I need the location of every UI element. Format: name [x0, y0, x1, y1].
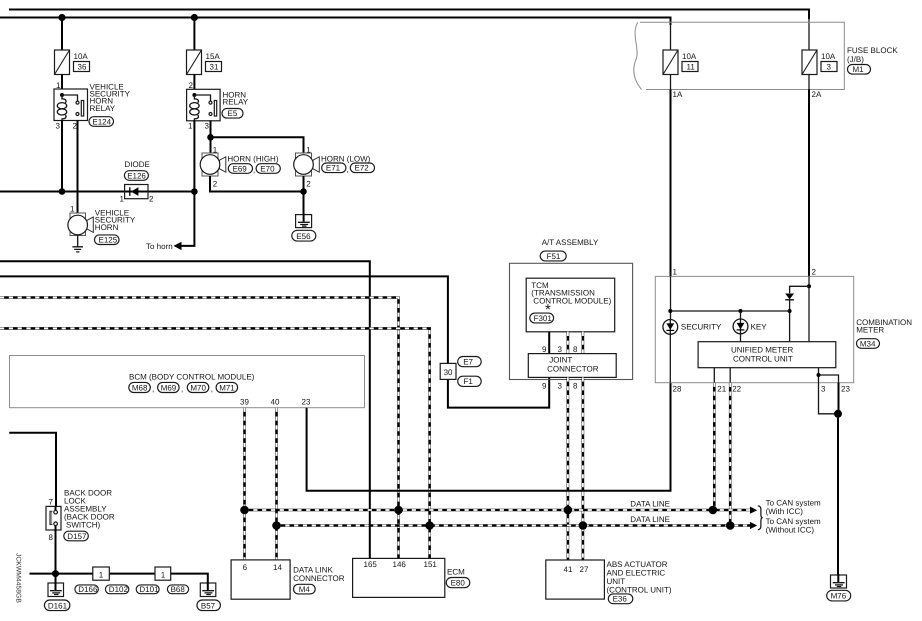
- wire: TCM dashed to joint connector pin 3: [567, 332, 570, 354]
- wire: horn feed with diode E126: [0, 191, 194, 193]
- svg-text:151: 151: [424, 560, 438, 569]
- svg-text:RELAY: RELAY: [223, 98, 249, 107]
- svg-text:E5: E5: [228, 109, 238, 118]
- svg-text:3: 3: [558, 345, 563, 354]
- svg-text:D166: D166: [78, 585, 98, 594]
- node: junction on bus 2 above fuse 10A/36: [58, 14, 65, 21]
- node: junction diode wire / relay E124 pin 3: [59, 188, 66, 195]
- wire: key LED to unified meter control unit: [740, 334, 742, 342]
- connector ovals D166 D102 D101 B68: [75, 585, 189, 594]
- svg-text:E124: E124: [92, 117, 111, 126]
- wire: fuse 31 to relay E5 pin 2: [193, 75, 195, 90]
- combination meter box M34: [655, 268, 912, 383]
- wire: stem to ground D161: [55, 574, 57, 583]
- svg-text:CONNECTOR: CONNECTOR: [293, 574, 345, 583]
- wire: LED supply rail: [670, 310, 789, 312]
- wire: horn high pin 2 to horn low pin 2, to ground E56: [210, 176, 304, 215]
- svg-text:8: 8: [573, 381, 578, 390]
- svg-text:SECURITY: SECURITY: [681, 323, 722, 332]
- wire: line through connector 30 to joint connector pin 9: [0, 276, 549, 407]
- svg-text:E80: E80: [451, 579, 466, 588]
- wire: fuse 2A to combination meter pin 2: [808, 75, 810, 90]
- svg-text:2: 2: [306, 180, 311, 189]
- svg-text:E56: E56: [296, 232, 311, 241]
- joint connector: [528, 345, 616, 391]
- svg-text:2A: 2A: [812, 90, 822, 99]
- svg-text:E126: E126: [127, 171, 146, 180]
- svg-text:(With ICC): (With ICC): [766, 507, 804, 516]
- unified meter control unit: [698, 342, 836, 368]
- svg-text:JOINT: JOINT: [549, 356, 572, 365]
- wire: UMCU to meter pins 3 and 23: [819, 368, 839, 383]
- svg-text:KEY: KEY: [751, 323, 768, 332]
- TCM (transmission control module) F301: [526, 278, 615, 332]
- diode (meter internal): [785, 294, 794, 300]
- svg-text:M34: M34: [860, 339, 876, 348]
- fuse 10A 3 (2A): [802, 50, 837, 99]
- node: data line 2 junctions: [272, 521, 281, 530]
- svg-text:39: 39: [240, 398, 249, 407]
- svg-text:RELAY: RELAY: [90, 104, 116, 113]
- wire: joint connector pin 8 dashed down to ABS pin 27: [582, 377, 585, 560]
- svg-text:23: 23: [841, 385, 850, 394]
- svg-text:,: ,: [253, 166, 255, 175]
- wire: branch to internal diode: [790, 286, 809, 293]
- wire: BCM pin 39 dashed down to data link connector pin 6: [243, 408, 246, 560]
- wire: bus 2 to fuse 10A/36: [61, 18, 63, 51]
- svg-text:21: 21: [717, 385, 726, 394]
- wire: UMCU to meter pin 21: [713, 368, 715, 383]
- svg-text:8: 8: [49, 533, 54, 542]
- node: junction on pin 2 wire: [807, 284, 811, 288]
- svg-text:1: 1: [99, 571, 104, 580]
- node: junction KEY led / rail: [739, 309, 743, 313]
- wire: bus 2 to fuse 15A/31: [193, 18, 195, 51]
- svg-text:11: 11: [687, 63, 696, 72]
- wire: CAN branch line to ECM pin 165: [0, 261, 370, 558]
- svg-text:B57: B57: [201, 601, 216, 610]
- horn LOW E71/E72: [294, 146, 375, 189]
- LED key indicator: [733, 319, 767, 334]
- node: junction diode / LED rail: [788, 309, 792, 313]
- svg-text:HORN (HIGH): HORN (HIGH): [227, 154, 278, 163]
- svg-text:,: ,: [152, 385, 154, 394]
- svg-text:METER: METER: [856, 326, 884, 335]
- wire: feed to horn low pin 1: [211, 137, 304, 153]
- inline connector 1 (D166/D102): [93, 567, 110, 580]
- svg-text:1: 1: [161, 571, 166, 580]
- svg-text:3: 3: [827, 63, 832, 72]
- wire: relay E5 pin 3 down: [210, 120, 212, 153]
- wire: relay E124 pin 3 down to diode wire: [61, 121, 63, 192]
- wire: joint connector pin 3 dashed down to ABS pin 41: [567, 377, 570, 560]
- ABS actuator and electric unit E36: [546, 560, 672, 604]
- node: junction diode wire / to-horn wire: [191, 188, 198, 195]
- svg-text:41: 41: [564, 565, 573, 574]
- fuse 15A 31: [187, 50, 222, 75]
- svg-text:F1: F1: [464, 377, 474, 386]
- wire: meter pin 22 dashed to data line 2: [729, 383, 732, 526]
- wire: rail to KEY led: [740, 311, 742, 319]
- node: junction horn grounds: [300, 188, 307, 195]
- svg-text:D101: D101: [139, 585, 159, 594]
- wire: meter pins 3/23 join to ground M76: [819, 383, 839, 414]
- node: junction pins 3/23 below meter: [834, 410, 842, 418]
- svg-text:1: 1: [673, 268, 678, 277]
- svg-text:10A: 10A: [74, 52, 89, 61]
- svg-text:D157: D157: [67, 532, 87, 541]
- data line 1 dashed to CAN with ICC: [245, 509, 751, 512]
- connector 30 between harness E7 / F1: [440, 357, 481, 387]
- svg-text:FUSE BLOCK: FUSE BLOCK: [847, 46, 898, 55]
- wire: fuse 1A to combination meter pin 1: [670, 75, 672, 90]
- svg-text:E36: E36: [613, 595, 628, 604]
- svg-text:27: 27: [580, 565, 589, 574]
- svg-text:23: 23: [302, 398, 311, 407]
- brace grouping CAN outputs: [758, 506, 763, 530]
- svg-text:M69: M69: [161, 383, 177, 392]
- BCM (body control module) box: [10, 356, 365, 408]
- wire: power bus line 2 (to fuse 1A): [0, 18, 671, 26]
- ground E56: [292, 213, 316, 241]
- svg-text:HORN (LOW): HORN (LOW): [321, 154, 371, 163]
- node: junction switch / ground rail: [52, 570, 59, 577]
- node: junction horn high / horn low feed: [207, 134, 214, 141]
- wire: meter pin 2 internal down to unified meter control unit: [808, 276, 810, 341]
- svg-text:BCM (BODY CONTROL MODULE): BCM (BODY CONTROL MODULE): [129, 372, 255, 381]
- svg-text:(Without ICC): (Without ICC): [766, 526, 815, 535]
- wire: relay E5 pin 1 down, to horn arrow: [182, 120, 195, 245]
- svg-text:(CONTROL UNIT): (CONTROL UNIT): [607, 585, 672, 594]
- svg-text:10A: 10A: [821, 52, 836, 61]
- fuse 10A 36: [55, 50, 90, 75]
- svg-text:M4: M4: [299, 585, 311, 594]
- wire: CAN dashed line to ECM pin 151: [0, 328, 430, 558]
- fuse 10A 11 (1A): [663, 50, 698, 99]
- wire: bottom ground rail: [30, 574, 208, 583]
- data line 2 dashed to CAN without ICC: [277, 524, 751, 527]
- to horn arrow: [174, 242, 182, 250]
- wire: TCM pin to joint connector pin 9: [548, 332, 550, 354]
- svg-text:A/T ASSEMBLY: A/T ASSEMBLY: [542, 238, 599, 247]
- svg-text:2: 2: [149, 195, 154, 204]
- svg-text:E7: E7: [463, 358, 473, 367]
- svg-text:10A: 10A: [682, 52, 697, 61]
- svg-text:To horn: To horn: [146, 242, 173, 251]
- node: junction on bus 2 above fuse 15A/31: [191, 14, 198, 21]
- arrow: to CAN system (without ICC): [750, 522, 757, 529]
- wire: BCM area to back door switch: [9, 433, 56, 507]
- relay E124 (vehicle security horn relay): [54, 81, 131, 131]
- svg-text:2: 2: [812, 268, 817, 277]
- ground (earth) below E125: [72, 236, 83, 252]
- svg-text:31: 31: [210, 63, 219, 72]
- ground M76: [827, 574, 851, 601]
- svg-text:E69: E69: [233, 164, 248, 173]
- svg-text:D161: D161: [48, 601, 68, 610]
- svg-text:15A: 15A: [206, 52, 221, 61]
- A/T assembly F51: [510, 238, 633, 380]
- svg-text:ECM: ECM: [447, 568, 465, 577]
- wire: BCM pin 23 to combination meter pin 28: [307, 383, 671, 491]
- svg-text:B68: B68: [171, 585, 186, 594]
- svg-text:30: 30: [444, 368, 453, 377]
- svg-text:1: 1: [120, 195, 125, 204]
- wire: CAN dashed line to ECM pin 146: [0, 298, 399, 559]
- svg-text:28: 28: [673, 385, 682, 394]
- svg-text:1A: 1A: [673, 90, 683, 99]
- svg-text:M68: M68: [132, 383, 148, 392]
- svg-text:14: 14: [273, 563, 282, 572]
- wire: switch pin 8 down to ground wire: [55, 530, 57, 574]
- svg-text:,: ,: [347, 165, 349, 174]
- node: junction pin3/pin23 branch: [817, 373, 821, 377]
- inline connector 1 (D101/B68): [155, 567, 171, 580]
- svg-text:D102: D102: [109, 585, 129, 594]
- wire: down to ground M76: [837, 414, 839, 575]
- svg-text:E125: E125: [99, 236, 118, 245]
- svg-text:E71: E71: [326, 164, 341, 173]
- diode E126: [120, 160, 155, 204]
- vehicle security horn E125: [68, 205, 136, 245]
- svg-text:22: 22: [732, 385, 741, 394]
- svg-text:SWITCH): SWITCH): [66, 521, 101, 530]
- svg-text:DATA LINE: DATA LINE: [630, 515, 670, 524]
- arrow: to CAN system (with ICC): [750, 507, 757, 514]
- svg-text:3: 3: [821, 385, 826, 394]
- svg-text:,: ,: [211, 385, 213, 394]
- svg-text:(J/B): (J/B): [847, 55, 864, 64]
- svg-text:7: 7: [49, 498, 54, 507]
- svg-text:,: ,: [181, 385, 183, 394]
- svg-text:M70: M70: [190, 383, 206, 392]
- svg-text:1: 1: [70, 205, 75, 214]
- wire: UMCU to meter pin 22: [729, 368, 731, 383]
- wire: security LED down to meter pin 28: [669, 334, 671, 382]
- svg-text:DATA LINE: DATA LINE: [630, 500, 670, 509]
- wire: relay E124 pin 2 down to vehicle security horn: [77, 121, 79, 214]
- svg-text:36: 36: [78, 63, 87, 72]
- connector E124: [89, 117, 114, 127]
- svg-text:1: 1: [188, 122, 193, 131]
- svg-text:8: 8: [573, 345, 578, 354]
- node: junction pin1/rail: [668, 309, 672, 313]
- svg-text:F51: F51: [547, 252, 561, 261]
- svg-text:6: 6: [243, 563, 248, 572]
- wire: meter pin 1 internal to security LED: [670, 276, 672, 319]
- wire: power bus line 1 (to fuse 2A): [9, 10, 809, 20]
- wire: TCM dashed to joint connector pin 8: [582, 332, 585, 354]
- svg-text:2: 2: [189, 81, 194, 90]
- relay E5 (horn relay): [187, 81, 249, 131]
- svg-text:HORN: HORN: [95, 223, 119, 232]
- svg-text:UNIFIED METER: UNIFIED METER: [731, 346, 793, 355]
- ECM E80: [353, 558, 470, 597]
- svg-text:146: 146: [393, 560, 407, 569]
- svg-text:3: 3: [205, 122, 210, 131]
- wire: diode to LED supply rail: [789, 300, 791, 342]
- ground D161: [44, 582, 70, 611]
- svg-text:2: 2: [213, 180, 218, 189]
- svg-text:165: 165: [364, 560, 378, 569]
- svg-text:M76: M76: [831, 592, 847, 601]
- svg-text:JCKWM4458GB: JCKWM4458GB: [15, 553, 22, 603]
- wire: meter pin 21 dashed to data line 1: [713, 383, 716, 510]
- horn HIGH E69/E70: [200, 146, 280, 189]
- ground B57: [197, 582, 221, 611]
- wire: BCM pin 40 dashed down to data link connector pin 14: [275, 408, 278, 560]
- svg-text:DIODE: DIODE: [125, 160, 150, 169]
- svg-text:3: 3: [56, 122, 61, 131]
- svg-text:M1: M1: [853, 65, 865, 74]
- svg-text:E70: E70: [260, 164, 275, 173]
- svg-text:M71: M71: [219, 383, 235, 392]
- svg-text:40: 40: [271, 398, 280, 407]
- connector E5: [222, 109, 243, 119]
- node: data line 1 junctions: [240, 506, 249, 515]
- connector M1: [848, 65, 871, 75]
- back door switch D157: [46, 489, 115, 543]
- svg-text:E72: E72: [355, 164, 370, 173]
- svg-text:CONTROL UNIT: CONTROL UNIT: [733, 355, 793, 364]
- fuse block (J/B) outline with torn edge: [634, 22, 899, 89]
- svg-text:F301: F301: [534, 314, 553, 323]
- data link connector M4: [231, 560, 345, 599]
- LED security indicator: [663, 320, 722, 335]
- svg-text:9: 9: [542, 381, 547, 390]
- svg-text:9: 9: [542, 345, 547, 354]
- svg-text:3: 3: [558, 381, 563, 390]
- wire: fuse 36 to relay E124 pin 1: [61, 75, 63, 90]
- svg-text:CONNECTOR: CONNECTOR: [547, 365, 599, 374]
